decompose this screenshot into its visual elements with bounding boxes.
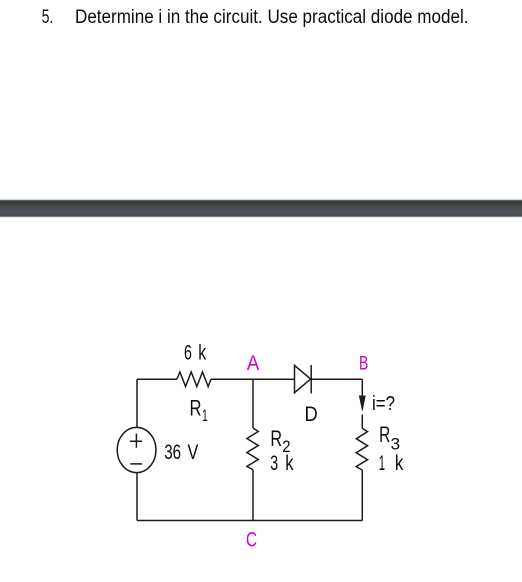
voltage source V1 (36 V): ellipse body [117, 427, 156, 472]
wire: bottom horizontal rail [137, 520, 362, 522]
svg-text:B: B [359, 353, 368, 375]
wire: node A vertical down to R2 [252, 379, 254, 428]
svg-text:D: D [305, 403, 318, 426]
resistor R3 (1 k) vertical zigzag [356, 428, 367, 470]
svg-text:C: C [246, 529, 257, 552]
svg-text:k: k [395, 452, 404, 475]
svg-text:A: A [247, 352, 260, 375]
svg-text:3: 3 [270, 452, 278, 475]
wire: R3 bottom down to bottom rail [361, 470, 363, 520]
title: problem statement text [42, 7, 469, 28]
svg-text:3: 3 [391, 434, 401, 453]
svg-text:k: k [198, 342, 206, 365]
wire: top middle segment from R1 to diode [211, 378, 295, 380]
svg-text:36: 36 [164, 441, 181, 464]
wire: R2 bottom down to bottom rail (node C) [252, 470, 254, 521]
wire: short segment below arrow to R3 [361, 415, 363, 429]
wire: left vertical from top wire down to source [136, 379, 138, 427]
svg-text:R: R [190, 396, 202, 421]
label R1 (reference designator) [190, 396, 208, 426]
page separator band [0, 200, 522, 217]
diode D: cathode bar [310, 365, 312, 393]
voltage source minus sign [130, 463, 142, 465]
svg-text:V: V [188, 441, 199, 464]
current arrow i (filled head pointing down) [359, 396, 365, 411]
wire: top right segment from diode to node B corner [311, 378, 362, 380]
svg-text:i=?: i=? [372, 393, 395, 415]
svg-text:1: 1 [379, 452, 385, 475]
svg-text:R: R [270, 426, 282, 451]
svg-text:R: R [379, 422, 390, 447]
resistor R2 (3 k) vertical zigzag [247, 428, 258, 470]
wire: left vertical from source down to bottom wire [136, 473, 138, 521]
label R2 (reference designator) [270, 426, 290, 456]
diode D: anode triangle [295, 365, 311, 392]
svg-text:6: 6 [184, 342, 192, 365]
voltage source plus sign [130, 434, 142, 448]
label R3 (reference designator) [379, 422, 400, 454]
svg-text:5.: 5. [42, 7, 54, 28]
resistor R1 (6 k) zigzag [177, 372, 211, 387]
wire: node B vertical down toward R3 [361, 379, 363, 397]
svg-text:1: 1 [202, 406, 208, 425]
wire: top-left horizontal segment [137, 378, 177, 380]
svg-text:k: k [285, 452, 294, 475]
svg-text:Determine i in the circuit. Us: Determine i in the circuit. Use practica… [75, 7, 469, 28]
